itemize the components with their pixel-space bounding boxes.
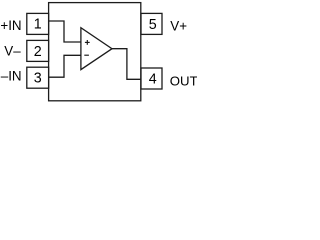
pin 3 box (27, 67, 49, 88)
pin 1 box (27, 13, 49, 34)
op-amp + input marker (85, 40, 90, 45)
svg-text:5: 5 (149, 17, 157, 33)
svg-text:4: 4 (149, 71, 157, 87)
svg-text:2: 2 (34, 44, 42, 60)
wire pin 3 to op-amp inverting input (49, 55, 81, 77)
svg-text:V+: V+ (170, 19, 187, 34)
svg-text:V–: V– (4, 43, 21, 58)
svg-text:OUT: OUT (170, 74, 197, 89)
op-amp − input marker (84, 54, 89, 56)
svg-text:–IN: –IN (1, 69, 22, 84)
wire pin 1 to op-amp noninverting input (49, 21, 81, 42)
op-amp triangle (81, 28, 112, 70)
svg-text:1: 1 (34, 17, 42, 33)
wire op-amp output to pin 4 (112, 49, 141, 80)
pin 5 box (141, 13, 162, 34)
svg-text:+IN: +IN (0, 18, 21, 33)
svg-text:3: 3 (34, 70, 42, 86)
pin 2 box (27, 40, 49, 61)
pin 4 box (141, 68, 162, 89)
IC body U1 (49, 3, 141, 101)
